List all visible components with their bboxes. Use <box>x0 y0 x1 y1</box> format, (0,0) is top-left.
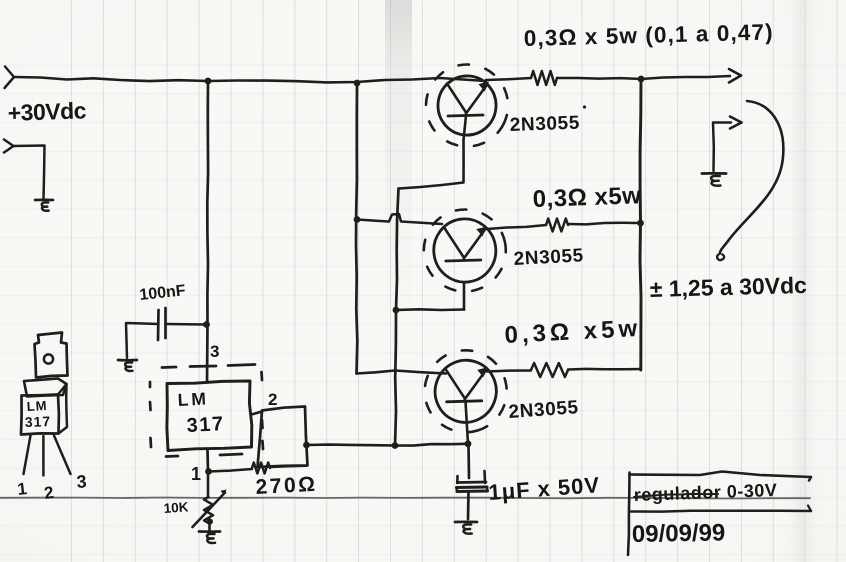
wire long vertical bus <box>395 189 399 446</box>
Q1 emitter line <box>466 84 488 114</box>
svg-text:270Ω: 270Ω <box>255 473 318 499</box>
TO-220 body top face <box>24 379 67 397</box>
capacitor C2 1uF plates <box>456 476 459 483</box>
wire LM317 bottom to pin1 node <box>206 451 209 472</box>
wire Q3 emitter to R3 <box>487 371 531 372</box>
wire base row2 <box>357 220 388 222</box>
svg-text:LM: LM <box>177 388 209 410</box>
wire rail to R1 and R1 to out <box>486 78 531 80</box>
wire C1 right lead <box>166 323 207 326</box>
wire C1 left lead <box>126 323 159 358</box>
svg-text:2N3055: 2N3055 <box>509 113 580 136</box>
node output junction top <box>638 76 645 83</box>
svg-text:317: 317 <box>25 413 52 430</box>
wire Q3 emitter node down <box>467 444 470 478</box>
svg-text:± 1,25 a 30Vdc: ± 1,25 a 30Vdc <box>649 272 807 302</box>
ink speck <box>583 105 586 108</box>
wire Q1 emitter lead down/left <box>399 140 464 189</box>
svg-text:317: 317 <box>186 413 225 437</box>
node pin2 box junction <box>303 442 310 449</box>
wire top rail <box>14 77 486 82</box>
Q1 base bar <box>448 115 483 116</box>
Q3 base bar <box>447 401 482 402</box>
Q3 collector line <box>446 369 465 398</box>
svg-text:1: 1 <box>191 464 201 484</box>
svg-text:0,3Ω x5w: 0,3Ω x5w <box>532 182 642 213</box>
TO-220 tab hole <box>44 354 53 363</box>
node rail A mid junction <box>354 216 361 223</box>
svg-text:3: 3 <box>76 471 87 492</box>
node rail A top junction <box>354 80 361 87</box>
wire pin2 connector <box>252 412 263 415</box>
crease band center-top <box>385 0 412 360</box>
Q2 base bar <box>446 260 481 261</box>
ground pot <box>199 530 220 533</box>
transistor Q2 2N3055 circle <box>430 215 500 286</box>
dark ruled line <box>0 498 810 499</box>
node pin1 junction <box>205 468 212 475</box>
potentiometer RV1 10K <box>207 472 210 498</box>
wire to output arrow <box>641 76 730 79</box>
transistor Q3 2N3055 circle <box>426 352 505 431</box>
ground input2 <box>35 198 53 201</box>
wire cap to ground <box>467 492 470 519</box>
svg-text:2N3055: 2N3055 <box>513 245 584 270</box>
node top-left junction <box>205 78 212 85</box>
node bus bottom junction <box>392 442 399 449</box>
node bus mid junction <box>393 307 400 314</box>
wire output row y445 <box>307 444 469 446</box>
input arrow 2 <box>4 140 14 147</box>
Q3 emitter arrow blob <box>477 367 488 377</box>
svg-text:1: 1 <box>16 479 27 499</box>
Q1 emitter arrow blob <box>479 82 490 92</box>
wire rail A jog to Q3 <box>357 371 447 374</box>
resistor R4 270ohm <box>209 469 253 472</box>
TO-220 leg 3 <box>54 436 71 475</box>
capacitor C1 100nF plates <box>157 310 160 340</box>
TO-220 body side face <box>58 384 67 434</box>
wire Q2 emitter to R2 <box>487 225 546 229</box>
title block top line <box>630 472 812 478</box>
Q2 collector line <box>445 229 464 258</box>
node C1/rail junction <box>203 321 210 328</box>
op-amp/regulator U1 LM317 box <box>167 381 252 451</box>
Q2 emitter arrow blob <box>476 227 487 237</box>
output arrow top <box>729 69 741 76</box>
resistor R3 0.3ohm <box>531 363 568 377</box>
dashed box around LM317 <box>162 366 176 369</box>
wire left rail down to LM317 <box>207 81 208 382</box>
input arrow +30Vdc <box>5 67 14 78</box>
Q1 base lead <box>464 116 467 141</box>
Q2 corona dashes <box>416 202 513 299</box>
pot wiper arrow <box>193 493 226 528</box>
resistor R1 0.3ohm zigzag <box>531 71 557 85</box>
wire input2 to ground <box>14 146 45 200</box>
title block mid line <box>631 509 811 512</box>
wire rail A vertical <box>356 83 357 374</box>
TO-220 package tab outline <box>35 333 68 378</box>
Q3 base lead <box>466 402 469 444</box>
title block left edge <box>628 473 630 556</box>
TO-220 leg 1 <box>24 436 31 475</box>
Q3 corona dashes <box>414 340 517 443</box>
svg-text:09/09/99: 09/09/99 <box>632 519 726 548</box>
resistor R2 0.3ohm <box>546 219 568 232</box>
Q3 emitter line <box>465 370 487 400</box>
svg-text:3: 3 <box>210 342 219 361</box>
TO-220 body front face <box>21 395 59 435</box>
svg-text:2: 2 <box>268 390 277 409</box>
probe curve <box>720 101 783 254</box>
transistor Q1 2N3055 circle <box>436 74 499 138</box>
crease band right <box>789 0 817 562</box>
wire gnd stub <box>713 123 731 172</box>
ground C1 <box>118 359 137 362</box>
output arrow mid-right <box>730 117 742 123</box>
regulador scribble <box>634 494 718 497</box>
node pot bottom <box>207 519 213 525</box>
node right rail row2 junction <box>637 220 644 227</box>
svg-text:+30Vdc: +30Vdc <box>7 97 87 126</box>
svg-text:LM: LM <box>26 398 48 414</box>
ground output <box>702 172 726 175</box>
Q1 collector line <box>447 84 466 113</box>
svg-text:10K: 10K <box>163 499 189 516</box>
pin2 routing box <box>258 407 308 468</box>
Q2 emitter line <box>464 229 486 259</box>
wire box1 bottom <box>396 308 464 311</box>
Q1 corona dashes <box>412 50 522 160</box>
node Q3 emitter junction <box>465 440 472 447</box>
TO-220 leg 2 <box>42 436 44 476</box>
probe hook <box>717 254 724 261</box>
wire right rail <box>640 79 641 370</box>
ground C2 <box>455 520 477 523</box>
wire Q2 lead down <box>463 283 466 310</box>
